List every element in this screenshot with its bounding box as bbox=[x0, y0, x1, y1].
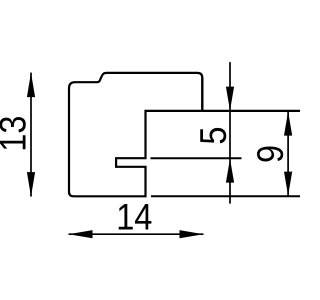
dimension 5 arrow up bbox=[226, 159, 234, 183]
dimension 9 line bbox=[287, 111, 289, 196]
rabbet vertical wire bbox=[201, 78, 203, 112]
dimension 5 line bbox=[229, 62, 231, 204]
profile outline bbox=[69, 73, 301, 196]
dimension 14 arrow left bbox=[69, 230, 93, 238]
svg-text:5: 5 bbox=[193, 127, 234, 145]
dimension 9 arrow up bbox=[284, 111, 292, 135]
extension line groove bbox=[151, 157, 242, 159]
dimension 13 arrow up bbox=[27, 73, 35, 98]
dimension 13 arrow down bbox=[27, 172, 35, 197]
extension line bottom bbox=[151, 195, 301, 197]
svg-text:13: 13 bbox=[0, 115, 34, 151]
dimension 9 arrow down bbox=[284, 172, 292, 196]
dimension 5 arrow down bbox=[226, 87, 234, 111]
svg-text:14: 14 bbox=[116, 197, 152, 238]
svg-text:9: 9 bbox=[250, 145, 291, 163]
dimension 14 line bbox=[69, 233, 204, 235]
dimension 13 line bbox=[30, 73, 32, 197]
dimension 14 arrow right bbox=[180, 230, 204, 238]
